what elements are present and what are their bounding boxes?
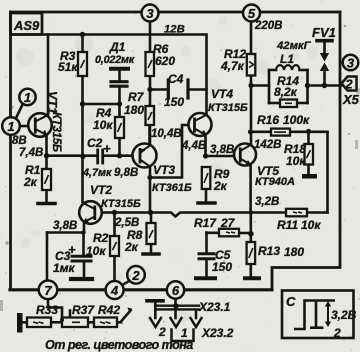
svg-text:R2: R2 xyxy=(93,231,109,245)
svg-text:10к: 10к xyxy=(301,218,321,232)
svg-text:R33: R33 xyxy=(36,303,58,317)
svg-text:2к: 2к xyxy=(124,240,139,254)
svg-text:10к: 10к xyxy=(93,118,113,132)
svg-text:+: + xyxy=(103,141,111,156)
svg-text:От рег. цветового тона: От рег. цветового тона xyxy=(45,338,193,352)
svg-text:100к: 100к xyxy=(283,113,310,127)
svg-text:Д1: Д1 xyxy=(109,40,126,54)
svg-text:R13: R13 xyxy=(258,244,280,258)
svg-text:R11: R11 xyxy=(277,218,298,232)
svg-text:С4: С4 xyxy=(168,72,184,86)
svg-text:С2: С2 xyxy=(87,136,103,150)
svg-text:4,4В: 4,4В xyxy=(181,140,206,152)
svg-text:8В: 8В xyxy=(12,135,27,147)
svg-text:150: 150 xyxy=(164,95,184,109)
svg-text:51к: 51к xyxy=(58,60,78,74)
svg-text:180: 180 xyxy=(284,245,304,259)
svg-text:10к: 10к xyxy=(86,244,106,258)
svg-text:2к: 2к xyxy=(213,179,228,193)
svg-text:27: 27 xyxy=(220,216,236,230)
svg-text:8,2к: 8,2к xyxy=(274,85,298,99)
svg-text:2к: 2к xyxy=(23,175,38,189)
svg-text:180: 180 xyxy=(124,103,144,117)
svg-text:КТ315Б: КТ315Б xyxy=(208,102,248,114)
svg-text:9,8В: 9,8В xyxy=(114,167,138,179)
svg-text:КТ361Б: КТ361Б xyxy=(152,182,192,194)
svg-text:1: 1 xyxy=(24,90,31,105)
svg-text:7: 7 xyxy=(44,283,52,298)
svg-text:620: 620 xyxy=(155,54,175,68)
svg-text:2: 2 xyxy=(158,325,166,339)
svg-text:4: 4 xyxy=(110,283,119,298)
svg-text:2: 2 xyxy=(333,326,341,340)
svg-text:2: 2 xyxy=(344,77,353,92)
svg-text:КТ940А: КТ940А xyxy=(255,176,295,188)
svg-text:1: 1 xyxy=(7,119,14,134)
svg-text:0,022мк: 0,022мк xyxy=(95,54,135,66)
svg-text:10к: 10к xyxy=(286,154,306,168)
svg-text:3,2В: 3,2В xyxy=(255,196,279,208)
svg-text:2: 2 xyxy=(131,268,140,283)
svg-text:VT3: VT3 xyxy=(153,163,175,177)
svg-text:10,4В: 10,4В xyxy=(151,128,182,140)
svg-text:3: 3 xyxy=(146,6,154,21)
svg-text:1мк: 1мк xyxy=(53,261,76,275)
svg-text:R17: R17 xyxy=(194,216,217,230)
svg-text:R7: R7 xyxy=(128,90,145,104)
svg-text:4,7мк: 4,7мк xyxy=(82,167,112,179)
svg-text:142В: 142В xyxy=(254,139,282,151)
svg-text:+: + xyxy=(68,242,76,257)
svg-text:150: 150 xyxy=(212,260,232,274)
svg-text:Х23.2: Х23.2 xyxy=(201,326,234,340)
svg-text:VT1: VT1 xyxy=(45,91,59,114)
svg-text:КТ315Б: КТ315Б xyxy=(50,112,62,152)
svg-text:4,7к: 4,7к xyxy=(220,59,245,73)
svg-text:3,8В: 3,8В xyxy=(210,144,234,156)
svg-text:КТ315Б: КТ315Б xyxy=(101,198,141,210)
svg-text:3,2В: 3,2В xyxy=(331,308,357,322)
svg-text:3: 3 xyxy=(347,56,355,71)
svg-text:Х5: Х5 xyxy=(342,92,360,107)
svg-text:220В: 220В xyxy=(254,20,283,32)
svg-text:12В: 12В xyxy=(164,24,185,36)
svg-text:R16: R16 xyxy=(257,113,279,127)
svg-text:FV1: FV1 xyxy=(312,25,336,40)
svg-text:R37: R37 xyxy=(72,303,95,317)
svg-text:С: С xyxy=(286,294,296,309)
svg-text:R42: R42 xyxy=(98,303,120,317)
svg-text:Х23.1: Х23.1 xyxy=(198,300,231,314)
svg-text:6: 6 xyxy=(172,283,180,298)
svg-text:7,4В: 7,4В xyxy=(19,147,43,159)
svg-text:5: 5 xyxy=(248,6,256,21)
svg-text:3,8В: 3,8В xyxy=(53,220,77,232)
